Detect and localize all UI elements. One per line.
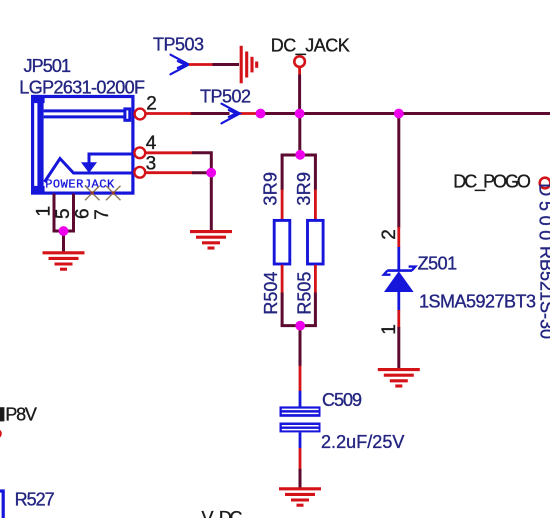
connector JP501 outer body: [33, 97, 133, 194]
svg-text:2: 2: [146, 94, 157, 115]
svg-text:TP503: TP503: [153, 34, 204, 54]
port DC_JACK circle: [294, 56, 305, 67]
svg-text:2.2uF/25V: 2.2uF/25V: [321, 432, 404, 452]
wire: zener to ground (maroon): [397, 327, 400, 368]
ground at Z501: [378, 370, 420, 386]
wire: zener pin2 (red): [397, 227, 400, 248]
svg-text:1: 1: [379, 324, 400, 335]
wire: pin1-pin5 bottom link (maroon): [53, 230, 76, 233]
junction dot at (398.8,113.5): [394, 109, 404, 119]
capacitor C509 top lead (blue): [299, 391, 302, 407]
zener Z501 anode lead (blue): [397, 292, 400, 311]
zener Z501 triangle: [384, 271, 414, 292]
junction dot at (211,172.7): [206, 168, 216, 178]
wire: R504 top lead (maroon): [281, 155, 284, 190]
ground at jack pins 1/5: [43, 253, 85, 269]
resistor R527 body (cut at left edge): [0, 491, 3, 518]
zener Z501 left wing: [384, 271, 391, 275]
wire: R505 top pin (red): [314, 190, 317, 221]
wire: R504 bottom pin (red): [281, 265, 284, 293]
wire: jack pin5 stub (maroon): [72, 194, 75, 232]
wire: pin4 (red): [145, 151, 192, 154]
svg-text:6: 6: [72, 208, 93, 219]
wire: main vertical down to resistor pair (maroon): [298, 114, 301, 157]
off-page connector block at P8V: [0, 407, 4, 421]
svg-text:JP501: JP501: [24, 56, 72, 76]
wire: resistor bottom bar (maroon): [281, 324, 317, 327]
pin 2 circle: [135, 109, 146, 120]
connector JP501 bottom-left block: [31, 186, 45, 194]
wire: pin3 (maroon): [192, 171, 211, 174]
wire: down to C509 (maroon): [299, 326, 302, 367]
connector JP501 spring contact and pin3 line: [45, 159, 133, 183]
svg-text:RB521S-30: RB521S-30: [537, 246, 550, 339]
svg-text:5: 5: [53, 208, 74, 219]
svg-text:DC_POGO: DC_POGO: [453, 171, 531, 192]
svg-text:P8V: P8V: [5, 405, 37, 425]
resistor R505 body: [308, 220, 324, 264]
connector JP501 switch arm with down arrow: [89, 154, 133, 163]
junction dot at (63.5,231): [59, 226, 69, 236]
connector JP501 center pin square: [125, 109, 130, 120]
capacitor C509 bottom lead (blue): [299, 432, 302, 448]
wire: R505 top lead (maroon): [314, 155, 317, 190]
svg-text:C509: C509: [322, 390, 362, 410]
svg-text:TP502: TP502: [200, 86, 251, 106]
pin 4 circle: [134, 147, 145, 158]
junction dot at (260.5,113.5): [256, 109, 266, 119]
svg-text:3R9: 3R9: [294, 172, 314, 206]
wire: TP502 tip red segment: [239, 112, 261, 115]
svg-text:4: 4: [146, 133, 157, 154]
svg-text:DC_JACK: DC_JACK: [271, 35, 350, 56]
no-connect X on pin 7: [106, 186, 121, 201]
no-connect X on pin 6: [85, 186, 100, 201]
zener Z501 right wing: [409, 267, 416, 271]
wire: DC_JACK circle down to main net (maroon): [298, 75, 301, 114]
wire: C509 bottom pin (red): [299, 448, 302, 469]
wire: C509 top pin (red): [299, 366, 302, 391]
svg-text:R527: R527: [15, 489, 55, 509]
resistor R504 body: [274, 220, 290, 264]
zener Z501 cathode bar: [387, 269, 412, 272]
wire: main horizontal after TP502 (maroon): [259, 112, 550, 115]
svg-text:R504: R504: [261, 272, 281, 315]
pin 3 circle: [134, 167, 145, 178]
ground at pin3 net: [190, 232, 232, 248]
svg-text:POWERJACK: POWERJACK: [45, 177, 115, 191]
svg-text:3: 3: [146, 153, 157, 174]
wire: pin3 net down to ground (maroon): [210, 173, 213, 230]
svg-text:7: 7: [92, 209, 113, 220]
svg-text:2: 2: [379, 229, 400, 240]
wire: R505 bottom pin (red): [314, 265, 317, 293]
port circle (cut at left edge): [0, 430, 1, 437]
svg-text:1: 1: [34, 206, 55, 217]
wire: zener pin1 (red): [397, 310, 400, 328]
ground at C509: [279, 489, 321, 505]
wire: zener branch vertical (maroon): [397, 114, 400, 228]
connector JP501 center pin line 2: [44, 115, 125, 118]
svg-text:1SMA5927BT3: 1SMA5927BT3: [419, 291, 536, 311]
wire: R504 bottom lead (maroon): [281, 293, 284, 326]
svg-text:Z501: Z501: [418, 253, 458, 273]
svg-text:R505: R505: [295, 272, 315, 315]
port DC_POGO circle: [540, 178, 550, 189]
svg-text:LGP2631-0200F: LGP2631-0200F: [19, 78, 145, 98]
testpoint TP502 arrow: [222, 104, 240, 124]
connector JP501 center pin line 1: [44, 109, 125, 112]
wire: R505 bottom lead (maroon): [314, 293, 317, 326]
connector JP501 top-left block: [31, 95, 45, 103]
connector JP501 barrel bar: [37, 97, 43, 194]
junction dot at (299.6,113.5): [295, 109, 305, 119]
wire: resistor top bar (maroon): [281, 154, 317, 157]
capacitor C509 bottom plate: [280, 423, 321, 433]
wire: pin4 (maroon) corner down: [192, 153, 211, 173]
wire: pin3 (red): [145, 171, 192, 174]
wire: jack pin2 to TP502 (red): [145, 112, 191, 115]
wire: C509 to ground (maroon): [299, 469, 302, 488]
wire: R504 top pin (red): [281, 190, 284, 221]
junction dot at (300,155): [295, 150, 305, 160]
wire: down to ground (maroon): [62, 231, 65, 252]
wire: TP503 to ground (maroon): [213, 63, 240, 66]
svg-text:3R9: 3R9: [261, 172, 281, 206]
capacitor C509 top plate: [280, 406, 321, 416]
wire: TP503 to ground (red): [189, 63, 213, 66]
junction dot at (300,325.6): [295, 321, 305, 331]
wire: jack pin1 stub (maroon): [53, 194, 56, 232]
testpoint TP503 arrow: [171, 55, 189, 75]
wire: net DC_JACK main horizontal (maroon): [190, 112, 230, 115]
ground (rotated right) at TP503: [241, 46, 257, 84]
zener Z501 cathode lead (blue): [397, 247, 400, 271]
svg-text:V_DC: V_DC: [202, 508, 243, 518]
wire: DC_JACK circle stub (red): [298, 67, 301, 75]
